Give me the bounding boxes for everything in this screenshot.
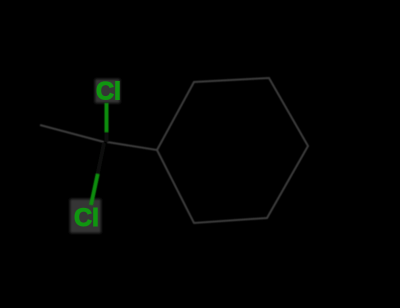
bond C1 to bottom Cl : dark carbon half [98, 143, 105, 175]
svg-text:Cl: Cl [96, 78, 121, 106]
bond C1 to top Cl : green Cl half [105, 103, 109, 132]
halo box bottom Cl [70, 199, 101, 233]
bond methyl [40, 125, 104, 142]
bond C1 to bottom Cl : green Cl half [91, 174, 98, 205]
bond C1 to top Cl : dark carbon half [105, 131, 109, 142]
halo box top Cl [95, 79, 120, 103]
bond C1 to ring [107, 142, 157, 150]
svg-text:Cl: Cl [74, 204, 99, 232]
cyclohexane ring [157, 78, 308, 223]
